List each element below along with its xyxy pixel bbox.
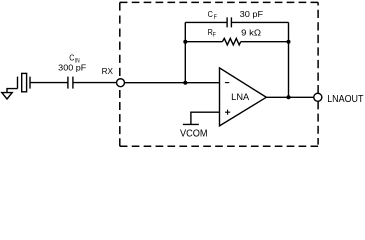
svg-text:LNA: LNA — [231, 92, 249, 102]
svg-text:C: C — [69, 53, 74, 63]
svg-text:C: C — [208, 9, 213, 19]
svg-text:F: F — [213, 32, 216, 38]
svg-text:VCOM: VCOM — [180, 128, 208, 139]
svg-text:RX: RX — [102, 66, 114, 76]
svg-text:300 pF: 300 pF — [58, 62, 86, 72]
svg-text:F: F — [214, 14, 217, 21]
svg-text:30 pF: 30 pF — [240, 9, 264, 19]
svg-text:9 kΩ: 9 kΩ — [241, 28, 261, 38]
svg-text:LNAOUT: LNAOUT — [327, 94, 363, 105]
